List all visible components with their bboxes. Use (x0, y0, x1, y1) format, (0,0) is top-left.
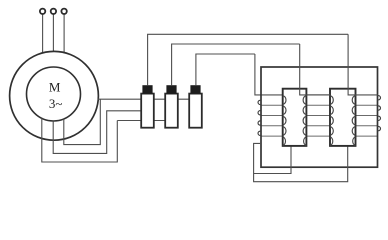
transformer T1 core (261, 67, 378, 167)
transformer T1 tap line 5 (261, 135, 378, 137)
wire between winding boxes (top bus) (306, 94, 330, 96)
wire stator bus to fuses (y 99.2) (98, 98, 190, 100)
wire core-left bottom tap loop to right box bottom (254, 143, 348, 181)
winding W1 right-edge coil bumps (303, 96, 306, 146)
wire rotor lead b (53, 111, 141, 154)
wire L3 supply drop (63, 14, 65, 53)
wire L1 supply drop (42, 14, 44, 54)
svg-text:3~: 3~ (49, 96, 63, 111)
wire L2 supply drop (52, 14, 54, 52)
terminal 2 (51, 9, 56, 14)
fuse F2 body (165, 94, 178, 128)
core right limb winding bumps (378, 96, 381, 131)
terminal 3 (61, 9, 66, 14)
fuse F1 body (141, 94, 154, 128)
transformer T1 tap line 2 (261, 104, 378, 106)
winding W2 right-edge coil bumps (352, 96, 355, 146)
motor M1 inner circle (27, 67, 81, 121)
wire F2 feed into W1 (300, 44, 330, 95)
transformer T1 tap line 3 (261, 115, 378, 117)
wire F3 drop to primary top tap (255, 54, 284, 95)
wire neutral branch to left box bottom (254, 146, 291, 174)
fuse F1 cap (142, 85, 152, 94)
winding box W2 (right) (330, 89, 356, 146)
wire lower link F1-F2 (y 120.5) (117, 120, 165, 122)
wire fuse F1 top run (148, 34, 349, 85)
wire rotor lead c (64, 99, 101, 144)
wire rotor lead a (inner circle to staircase) (42, 118, 118, 162)
core left limb winding bumps (258, 100, 261, 135)
motor M1 outer circle (10, 51, 99, 140)
svg-text:M: M (49, 79, 61, 94)
transformer T1 tap line 4 (261, 125, 378, 127)
fuse F3 cap (190, 85, 200, 94)
terminal 1 (40, 9, 45, 14)
fuse F3 body (189, 94, 202, 128)
winding W2 left-edge coil bumps (330, 96, 333, 146)
wire F1 feed into W2 (348, 34, 377, 95)
winding box W1 (left) (283, 89, 307, 146)
wire fuse F3 top run (196, 54, 255, 85)
fuse F2 cap (166, 85, 176, 94)
wire fuse F2 top run (172, 44, 300, 85)
winding W1 left-edge coil bumps (283, 96, 286, 146)
